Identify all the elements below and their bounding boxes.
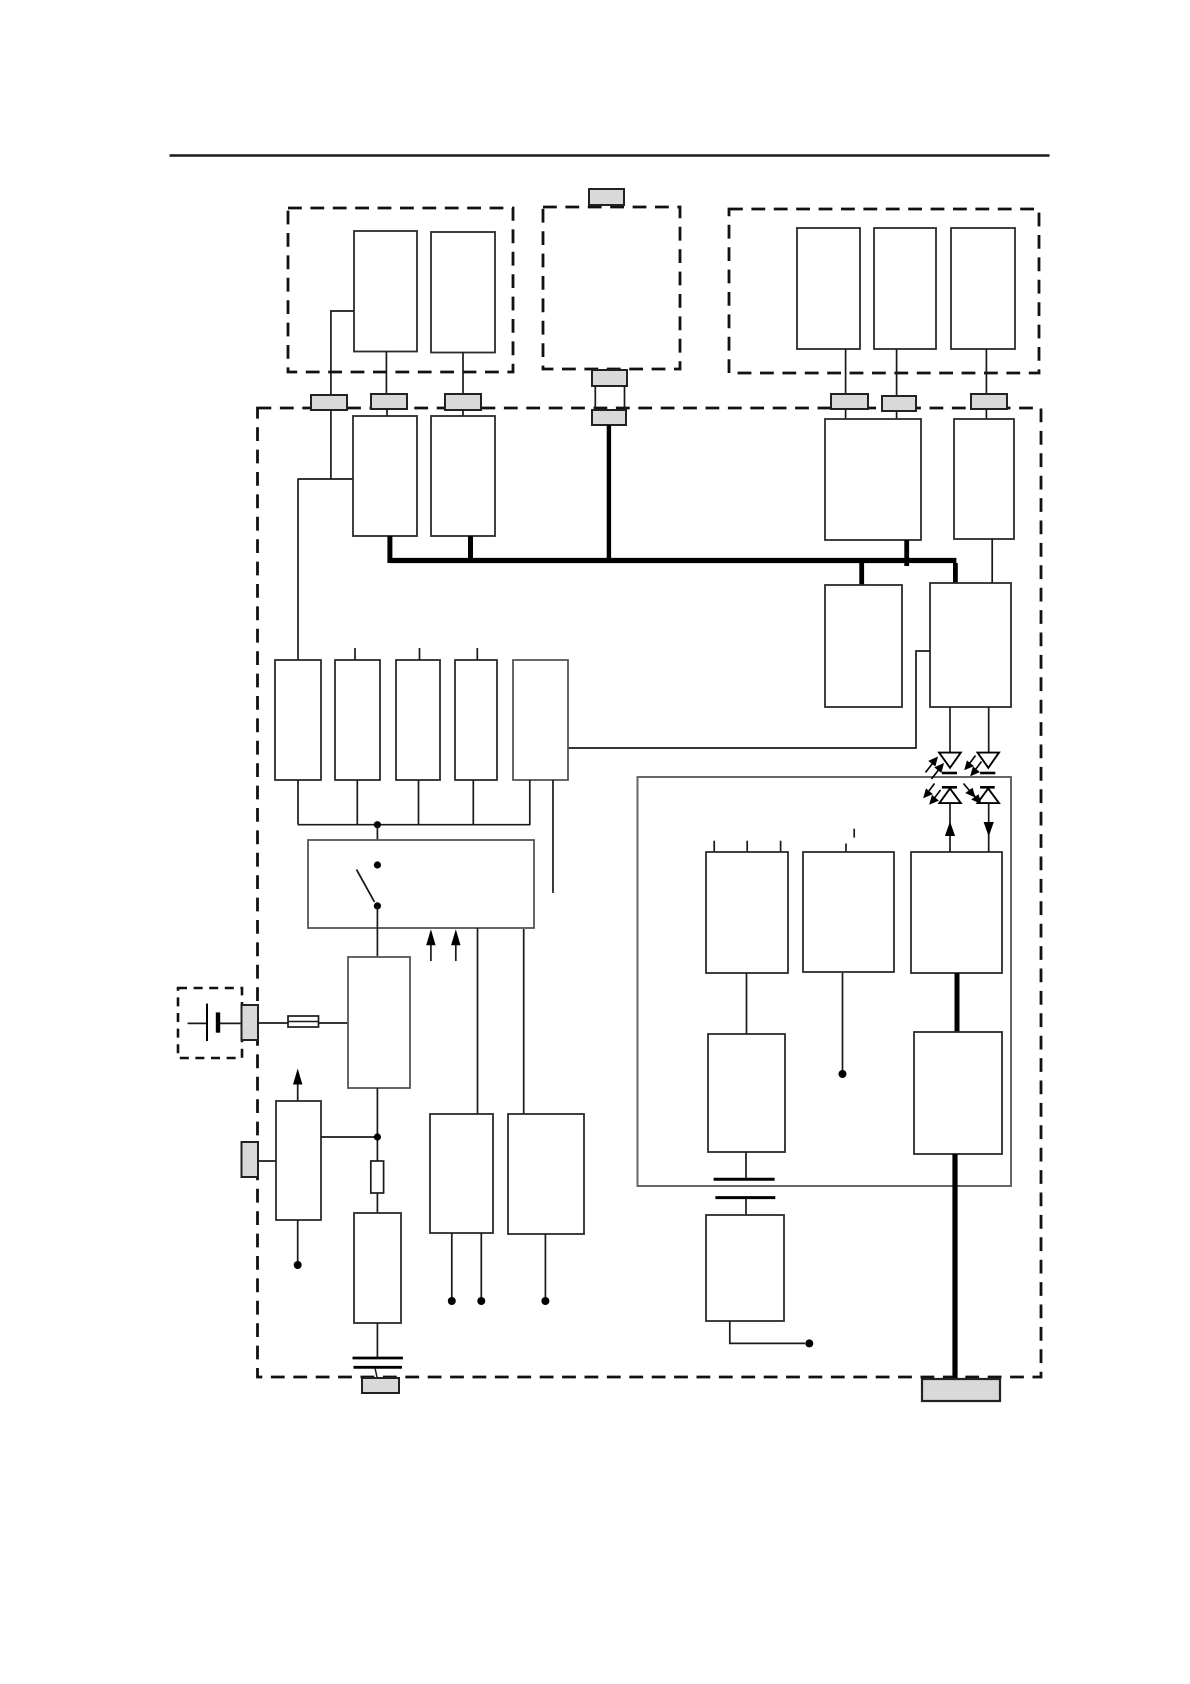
- wire: rail to switch top contact: [376, 825, 378, 865]
- block B2 (main board upper-left, right): [431, 416, 495, 536]
- block U1 (top-left module, left): [354, 231, 417, 352]
- tall block T3: [396, 660, 440, 780]
- wire: LED D9 to D3 with up arrow: [949, 803, 951, 852]
- wire: pad X3 to block B2 top: [462, 410, 464, 416]
- connector X8 body wires: [594, 386, 596, 410]
- wire: U5 bottom to pad X6: [985, 349, 987, 394]
- arrow input 2 under switch block: [455, 944, 457, 961]
- block M2 (mid bottom, right): [508, 1114, 584, 1234]
- bus stub: bus to block C1: [859, 563, 864, 585]
- node: dot: [477, 1297, 485, 1305]
- block RB (below resistor): [354, 1213, 401, 1323]
- switch S1 bottom contact: [374, 902, 381, 909]
- pad X9 (battery connector): [242, 1005, 259, 1040]
- wire: pad X1 down, tee to block B1 and tall block T1: [330, 410, 332, 479]
- wire: CHG right to PSU net: [321, 1136, 377, 1138]
- arrow above charger block: [297, 1084, 299, 1101]
- block D3 (display module right): [911, 852, 1002, 973]
- LED D9 (IR, row2 left): [942, 786, 957, 789]
- node: junction dot: [374, 1133, 381, 1140]
- wire: pad X2 to block B1 top: [386, 409, 388, 416]
- block U3 (top-right module, left): [797, 228, 860, 349]
- block U5 (top-right module, right): [951, 228, 1015, 349]
- battery BT1 negative lead: [188, 1022, 207, 1024]
- wire: junction rail: [298, 824, 531, 826]
- dashed module box: top-left UI module: [288, 208, 513, 372]
- wire: C2 block bottom leads to IR LEDs: [949, 707, 951, 752]
- wire: RB bottom to capacitor C1: [376, 1323, 378, 1357]
- wire: U2 bottom to pad X3: [462, 353, 464, 395]
- dashed module box: top-middle module: [543, 207, 680, 369]
- wire: T2 bottom to junction rail: [356, 780, 358, 824]
- wire: M1 bottom lead 2: [480, 1233, 482, 1301]
- tall block T4: [455, 660, 497, 780]
- block D2 (display module middle): [803, 852, 894, 972]
- battery BT1 positive lead to pad: [220, 1022, 242, 1024]
- pad X11 (ground pad left): [362, 1378, 399, 1393]
- wire: D4 to capacitor C2: [745, 1152, 747, 1178]
- bus stub: B1 to bus: [387, 536, 392, 563]
- wire: D1 to D4: [746, 973, 748, 1034]
- LED D7 (IR, row1 left): [939, 753, 961, 768]
- pad X4: [831, 394, 868, 409]
- capacitor C1 plate 1: [353, 1357, 403, 1360]
- fuse F1: [288, 1016, 319, 1027]
- pad X10 (charger connector): [242, 1142, 259, 1177]
- wire: T4 bottom to junction rail: [472, 780, 474, 824]
- block DISPLAY (inner module frame): [638, 777, 1012, 1186]
- wire: CHG bottom dangling with node: [297, 1220, 299, 1265]
- stub above T3: [419, 648, 421, 660]
- block C2 (below bus, right): [930, 583, 1011, 707]
- wire: tall block T5 to C2 left pin: [568, 651, 930, 748]
- floating tick above D2: [853, 829, 855, 838]
- dashed module box: battery pack: [178, 988, 242, 1058]
- block M1 (mid bottom, left): [430, 1114, 493, 1233]
- wire: R1 to block RB: [376, 1193, 378, 1213]
- wire: T3 bottom to junction rail: [418, 780, 420, 824]
- block D6 (bottom left of display area): [706, 1215, 784, 1321]
- wire: U3 bottom to pad X4: [845, 349, 847, 394]
- pad X3: [445, 394, 481, 410]
- LED D10 (IR, row2 right): [980, 786, 995, 789]
- pad X1: [311, 395, 347, 410]
- wire: pad X10 to CHG: [258, 1160, 276, 1162]
- connector X8 upper pad (below middle module): [592, 370, 627, 386]
- bus: main thick data bus: [390, 558, 957, 563]
- node: dot: [541, 1297, 549, 1305]
- stub above T2: [354, 648, 356, 660]
- wire: pad X9 to fuse F1: [258, 1022, 288, 1024]
- bus stub: connector X8 to bus: [607, 425, 611, 563]
- resistor R1: [371, 1161, 384, 1193]
- block D5 (below D3): [914, 1032, 1002, 1154]
- wire: pad X6 to block B4 top: [985, 409, 987, 419]
- wire: PSU bottom to resistor R1: [376, 1088, 378, 1161]
- wire: D6 bottom L-shape with node: [730, 1321, 805, 1343]
- block D1 (display module left): [706, 852, 788, 973]
- wire: switch block to block M1: [477, 928, 479, 1114]
- wire: T5 second bottom stub (dangling): [552, 780, 554, 893]
- wire: pad X5 to block B3 top: [896, 411, 898, 419]
- wire: T5 bottom to junction rail: [529, 780, 531, 825]
- wire: U4 bottom to pad X5: [896, 349, 898, 396]
- stub above T4: [476, 648, 478, 660]
- bus stub: B2 to bus: [468, 536, 473, 563]
- wire: B4 bottom to block C2: [991, 539, 993, 583]
- wire: M1 bottom lead 1: [451, 1233, 453, 1301]
- block B4 (main board upper-right, narrow): [954, 419, 1014, 539]
- pad X5: [882, 396, 916, 411]
- switch S1 top contact: [374, 861, 381, 868]
- battery BT1 long plate: [206, 1004, 208, 1041]
- dashed module box: main board: [258, 408, 1042, 1377]
- block U4 (top-right module, middle): [874, 228, 936, 349]
- capacitor C1 plate 2: [354, 1366, 402, 1369]
- bus stub: D3 to D5 thick: [955, 973, 960, 1032]
- block C1 (below bus, left): [825, 585, 902, 707]
- stub pin above block D2: [845, 844, 847, 853]
- LED D8 (IR, row1 right): [978, 753, 1000, 768]
- battery BT1 short plate: [216, 1012, 220, 1032]
- capacitor C2 plate 2: [715, 1196, 775, 1199]
- block B1 (main board upper-left, left): [353, 416, 417, 536]
- pad X2: [371, 394, 407, 409]
- tall block T1: [275, 660, 321, 780]
- block U2 (top-left module, right): [431, 232, 495, 353]
- stub pins above block D1: [713, 841, 715, 852]
- page header rule: [170, 154, 1050, 157]
- block PSU (power supply): [348, 957, 410, 1088]
- pad X7 (top of middle module): [589, 189, 624, 205]
- capacitor C2 plate 1: [714, 1178, 775, 1181]
- wire: pad X4 to block B3 top: [845, 409, 847, 419]
- tall block T5: [513, 660, 568, 780]
- node: dot: [448, 1297, 456, 1305]
- wire: LED D10 to D3 with down arrow: [988, 803, 990, 852]
- wire: M2 bottom lead: [544, 1234, 546, 1301]
- pad X12 (ground pad right): [922, 1379, 1000, 1401]
- LED D10 arrows (incoming): [964, 784, 981, 803]
- wire: fuse F1 to PSU block: [319, 1022, 349, 1024]
- arrow input 1 under switch block: [430, 944, 432, 961]
- block CHG (charging block): [276, 1101, 321, 1220]
- LED D7 arrows (incoming): [926, 758, 943, 779]
- wire: C2 to block D6: [745, 1198, 747, 1215]
- dashed module box: top-right module: [729, 209, 1039, 373]
- block D4 (below D1): [708, 1034, 785, 1152]
- node: CHG bottom dot: [294, 1261, 302, 1269]
- block B3 (main board upper-right, wide): [825, 419, 921, 540]
- wire: T1 bottom to junction rail: [297, 780, 299, 824]
- tall block T2: [335, 660, 380, 780]
- node: dot: [839, 1070, 847, 1078]
- LED D9 arrows (outgoing): [924, 784, 940, 804]
- wire: D2 bottom dangling with node: [842, 973, 844, 1074]
- wire: C1 to ground pad: [375, 1368, 378, 1383]
- switch S1 blade: [357, 870, 375, 902]
- wire: U1 left pin L-shaped to pad X1: [331, 311, 354, 395]
- wire: switch to PSU block: [376, 906, 378, 957]
- wire: switch block to block M2: [523, 929, 525, 1114]
- pad X6: [971, 394, 1007, 409]
- node: dot: [805, 1339, 813, 1347]
- node: junction dot on rail: [374, 821, 381, 828]
- bus: D5 to ground pad thick: [952, 1154, 957, 1379]
- bus stub: bus to block C2: [953, 563, 958, 583]
- connector X8 lower pad: [592, 410, 626, 425]
- wire: U1 bottom to pad X2: [385, 352, 387, 395]
- LED D8 arrows (outgoing): [965, 756, 981, 775]
- block SW (switch block): [308, 840, 534, 928]
- bus stub: B3 to bus: [904, 540, 909, 566]
